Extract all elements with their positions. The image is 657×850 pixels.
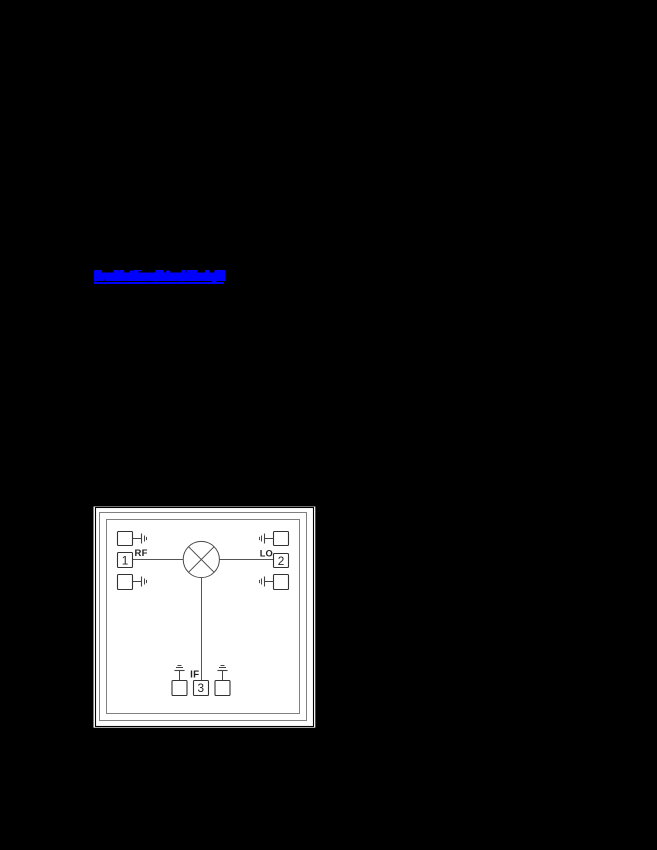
wire: pin1 to mixer (133, 559, 184, 561)
ground (IF-right pad) (217, 666, 227, 681)
pad IF-right (215, 681, 230, 696)
svg-text:RF: RF (135, 548, 148, 559)
pin 2 (LO) (274, 554, 289, 569)
svg-text:IF: IF (190, 669, 199, 680)
hyperlink underline (94, 282, 225, 284)
pin 3 (IF) (194, 681, 209, 696)
svg-text:1: 1 (122, 553, 129, 567)
ground (bottom-left pad) (133, 577, 147, 587)
pad top-right (274, 532, 289, 546)
pad bottom-right (274, 575, 289, 590)
mixer U1 (183, 541, 219, 577)
svg-text:3: 3 (198, 681, 205, 695)
ground (top-left pad) (133, 534, 147, 544)
chip outline inner (107, 520, 300, 714)
pad top-left (118, 532, 133, 546)
figure: mixer die schematic (93, 506, 317, 729)
outer frame (96, 508, 314, 727)
ground (bottom-right pad) (260, 577, 274, 587)
label RF (135, 548, 148, 559)
label LO (260, 548, 273, 558)
ground (IF-left pad) (174, 666, 184, 681)
ground (top-right pad) (260, 534, 274, 544)
chip outline outer (100, 513, 307, 721)
wire: mixer to pin2 (219, 559, 273, 561)
pad IF-left (172, 681, 187, 696)
pin 1 (RF) (118, 553, 133, 568)
svg-text:2: 2 (278, 554, 285, 568)
figure background (94, 507, 316, 728)
hyperlink (94, 270, 225, 283)
wire: mixer to pin3 (201, 578, 203, 681)
svg-text:LO: LO (260, 548, 273, 558)
label IF (190, 669, 199, 680)
pad bottom-left (118, 575, 133, 590)
